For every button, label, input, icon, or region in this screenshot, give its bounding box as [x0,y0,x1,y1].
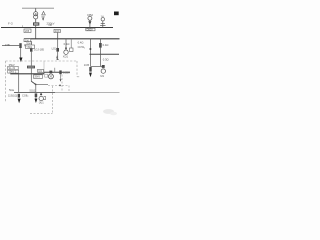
wire faint drop at bus3 step [43,61,45,72]
svg-text:M1: M1 [100,74,104,78]
feeder drop from bus2 at x90 [89,39,91,67]
small box right of bus3 label [45,74,48,77]
bus B2 (second bus) [24,38,120,40]
svg-text:CCW₂: CCW₂ [78,45,85,49]
wire transformer HV lead [35,8,37,12]
wire 2QF drop to bus2 [57,33,59,39]
label box DB28 below bus 1 [86,28,95,31]
wire to bus 1 [35,26,37,28]
svg-text:0.4Ω: 0.4Ω [78,40,84,44]
svg-text:5Ω(1): 5Ω(1) [30,88,37,92]
label box 205 below bus 1 left [24,29,31,33]
svg-text:5Ωa: 5Ωa [9,88,15,92]
svg-text:YH: YH [101,16,104,18]
bracket box right of generator [44,96,46,99]
bus B3 mid segment [43,72,45,74]
svg-text:F G: F G [8,22,14,26]
breaker 1CB8 on bus3 mid [59,70,61,74]
wire bus3 left drop [18,74,20,93]
dashed inner vertical [61,75,63,91]
transformer nameplate label (dark) [33,22,39,25]
transformer T1 (two-winding) [34,12,38,16]
label box 2QF below bus 1 center [54,29,60,32]
svg-text:101: 101 [38,70,43,73]
motor M1 with breaker blob [102,65,105,68]
wire bus3right to motor tee [99,54,101,66]
wire incoming 220kV overhead line [22,7,54,9]
dashed enclosure right edge upper [76,61,78,77]
bus B3 right (low voltage section) [90,53,120,55]
svg-text:1CB: 1CB [84,63,89,67]
svg-text:2QF: 2QF [55,30,60,33]
stub above bus3 mid [54,68,56,72]
station transformer XD1 circle on bus2 [65,39,67,50]
label box above bus3 mid [38,69,44,72]
svg-text:0.3Ω: 0.3Ω [103,58,109,62]
bus B1 (220kV main bus) [1,27,113,29]
svg-text:DB28: DB28 [87,28,94,31]
generator feeder breaker [35,93,38,97]
label box at bus2 left end [24,39,31,42]
watermark smudge bottom right [103,109,114,114]
dashed enclosure plant boundary top [6,60,78,62]
breaker on left generator feeder [18,94,20,98]
svg-text:CO8₂: CO8₂ [22,93,28,97]
label box below bus3 [34,75,43,79]
svg-text:SL-31: SL-31 [9,67,16,70]
generator G1 [40,93,42,95]
generator busbar long line [14,91,55,93]
surge arrester F1 [41,17,44,19]
dashed generator enclosure bottom [30,112,53,114]
arrow feeder end [19,58,22,63]
svg-text:(X)1: (X)1 [39,101,44,105]
dashed continuation of transfer [48,85,69,87]
svg-text:0.1Ω: 0.1Ω [64,42,70,46]
svg-text:LGJ-185: LGJ-185 [34,48,45,52]
disconnect arrow below DB2 [88,21,91,25]
svg-text:XD1: XD1 [63,54,69,58]
dark label box on feeder [27,66,35,69]
label box lower left section [8,70,19,73]
wire horizontal tee at y66 [90,65,103,67]
breaker QF6 between bus2 and bus3 right [99,39,101,55]
small mark right of breaker [24,44,26,46]
svg-text:11SΩ(2): 11SΩ(2) [8,94,17,97]
reactor box right of XD1 [70,39,72,48]
wire bus1 to bus2 main drop [35,28,37,39]
bus B3 left (generator bus) [10,73,44,75]
grounding transformer with X circle [49,71,52,74]
fuse symbol above [56,56,58,60]
wire transformer LV lead [35,19,37,22]
legend block (solid) top right [114,12,119,16]
wire transfer drop [35,84,37,92]
dashed enclosure left edge [5,61,7,102]
dashed generator enclosure right edge [52,86,54,113]
svg-text:205: 205 [25,30,30,33]
voltage transformer PT1 on bus 1 [101,18,104,21]
tick above bus1 [21,25,23,27]
label box upper left section [8,66,19,69]
svg-text:0.4Ω: 0.4Ω [103,43,109,47]
wire box to bus3 [30,68,32,73]
svg-text:1CB8: 1CB8 [63,71,70,75]
delta winding symbol [42,11,46,15]
svg-text:2M: 2M [49,24,52,27]
svg-text:1TB: 1TB [5,43,10,47]
svg-text:LGJ: LGJ [52,47,57,51]
svg-text:35kV: 35kV [34,76,40,79]
disconnect switch blade to transfer [30,74,32,82]
wire transfer horizontal [36,83,48,85]
breaker QF7 with outgoing arrow [89,67,91,72]
